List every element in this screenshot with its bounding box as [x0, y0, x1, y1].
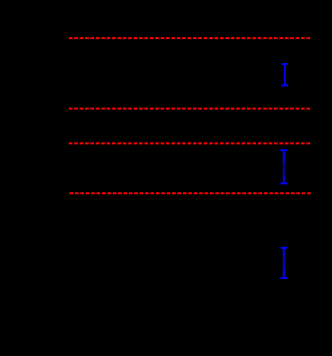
red dashed threshold line 3: [69, 142, 311, 144]
blue error bar 3: [280, 248, 287, 278]
red dashed threshold line 2: [69, 108, 311, 110]
red dashed threshold line 1: [69, 37, 311, 39]
red dashed threshold line 4: [70, 192, 311, 194]
blue error bar 1: [281, 64, 288, 85]
blue error bar 2: [280, 150, 287, 183]
